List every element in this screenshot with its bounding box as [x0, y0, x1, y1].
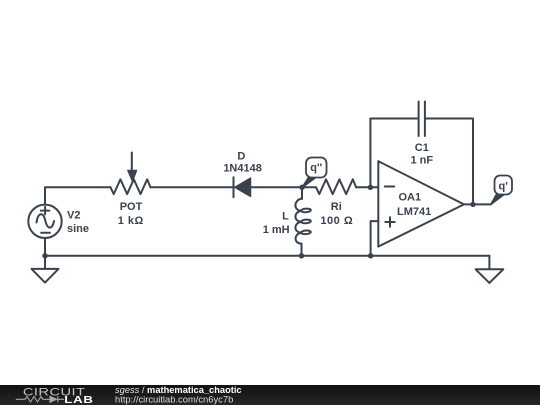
inductor L top lead	[301, 187, 303, 199]
svg-text:1N4148: 1N4148	[223, 163, 262, 175]
ground rail wire	[45, 255, 489, 257]
svg-text:1 kΩ: 1 kΩ	[118, 215, 144, 227]
inductor L loop 1	[301, 208, 311, 212]
svg-text:1 nF: 1 nF	[410, 154, 433, 166]
op-amp plus sign	[385, 217, 394, 226]
junction output-feedback	[470, 202, 475, 207]
junction + input rail	[368, 253, 373, 258]
diode D cathode bar	[233, 177, 235, 197]
V2 plus sign	[41, 207, 50, 215]
net flag q' box	[495, 176, 513, 195]
svg-text:100 Ω: 100 Ω	[320, 215, 353, 227]
svg-text:q': q'	[499, 181, 509, 193]
junction inductor bottom	[299, 253, 304, 258]
wire feedback left: input up to capacitor	[370, 119, 418, 188]
svg-text:L: L	[282, 211, 289, 223]
net flag q'' box	[306, 158, 327, 178]
inductor L bottom lead	[301, 244, 303, 256]
potentiometer POT zigzag	[111, 179, 151, 194]
svg-text:1 mH: 1 mH	[263, 224, 290, 236]
inductor L coil arcs	[295, 199, 301, 244]
svg-text:V2: V2	[67, 210, 80, 222]
svg-text:OA1: OA1	[399, 192, 422, 204]
ground right triangle	[476, 269, 504, 283]
wire op-amp + input down to rail	[371, 221, 379, 256]
footer bar	[0, 385, 540, 405]
svg-text:sine: sine	[67, 223, 89, 235]
logo resistor squiggle and diode	[16, 396, 64, 402]
voltage source V2 circle	[28, 205, 61, 238]
capacitor C1 right plate	[424, 102, 426, 137]
net flag q' pointer	[491, 195, 504, 205]
inductor L loop 2	[301, 219, 311, 223]
wire node to resistor Ri	[302, 186, 316, 188]
svg-text:LM741: LM741	[397, 206, 431, 218]
junction node q''	[299, 185, 304, 190]
svg-text:Ri: Ri	[331, 201, 342, 213]
op-amp OA1 triangle	[378, 161, 464, 246]
V2 sine wave	[37, 214, 55, 227]
wire POT to diode	[150, 186, 233, 188]
V2 bottom lead	[44, 238, 46, 256]
wire top-left: V2 top to POT	[45, 187, 111, 204]
svg-text:q'': q''	[310, 162, 322, 174]
svg-text:http://circuitlab.com/cn6yc7b: http://circuitlab.com/cn6yc7b	[115, 394, 233, 405]
ground left triangle	[32, 269, 59, 283]
capacitor C1 left plate	[418, 102, 420, 137]
wire diode to node q''	[251, 186, 303, 188]
op-amp minus sign	[385, 186, 394, 188]
junction feedback-input	[368, 185, 373, 190]
V2 minus sign	[41, 232, 50, 234]
svg-text:C1: C1	[415, 142, 429, 154]
ground right stub	[488, 256, 490, 269]
svg-text:POT: POT	[120, 201, 143, 213]
svg-text:LAB: LAB	[64, 393, 93, 405]
net flag q'' pointer	[302, 177, 317, 188]
ground left stub	[44, 256, 46, 269]
junction V2 ground	[42, 253, 47, 258]
diode D triangle	[235, 178, 251, 196]
wire feedback right: capacitor to output	[425, 119, 473, 205]
inductor L loop 3	[301, 230, 311, 234]
resistor Ri zigzag	[316, 179, 356, 194]
POT wiper arrow	[131, 153, 133, 171]
svg-text:D: D	[237, 151, 245, 163]
wire op-amp output	[464, 203, 491, 205]
wire Ri to op-amp	[356, 186, 378, 188]
